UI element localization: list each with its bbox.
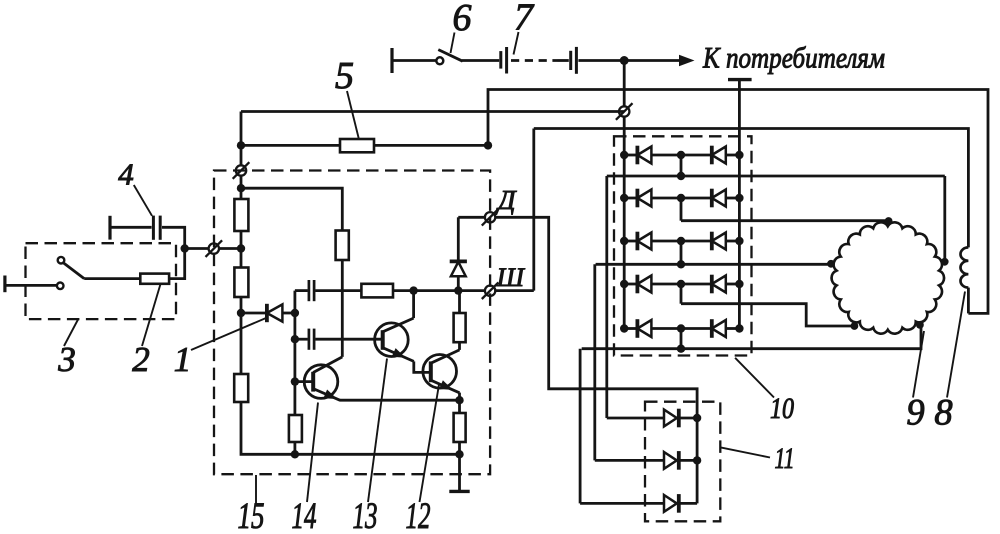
svg-text:9: 9	[906, 392, 924, 433]
svg-text:10: 10	[770, 392, 794, 425]
svg-text:13: 13	[353, 495, 378, 534]
svg-text:14: 14	[292, 495, 317, 534]
svg-text:Д: Д	[495, 184, 517, 215]
svg-text:Ш: Ш	[496, 263, 526, 292]
svg-text:8: 8	[934, 392, 952, 433]
svg-text:11: 11	[775, 442, 795, 475]
svg-text:7: 7	[514, 0, 535, 39]
svg-text:6: 6	[453, 0, 472, 39]
svg-text:К потребителям: К потребителям	[702, 42, 885, 75]
svg-text:12: 12	[406, 495, 431, 534]
svg-text:2: 2	[132, 340, 150, 379]
svg-text:15: 15	[238, 495, 265, 534]
svg-text:4: 4	[118, 157, 134, 192]
svg-text:5: 5	[335, 55, 354, 97]
svg-text:1: 1	[174, 340, 192, 379]
svg-text:3: 3	[57, 340, 76, 379]
